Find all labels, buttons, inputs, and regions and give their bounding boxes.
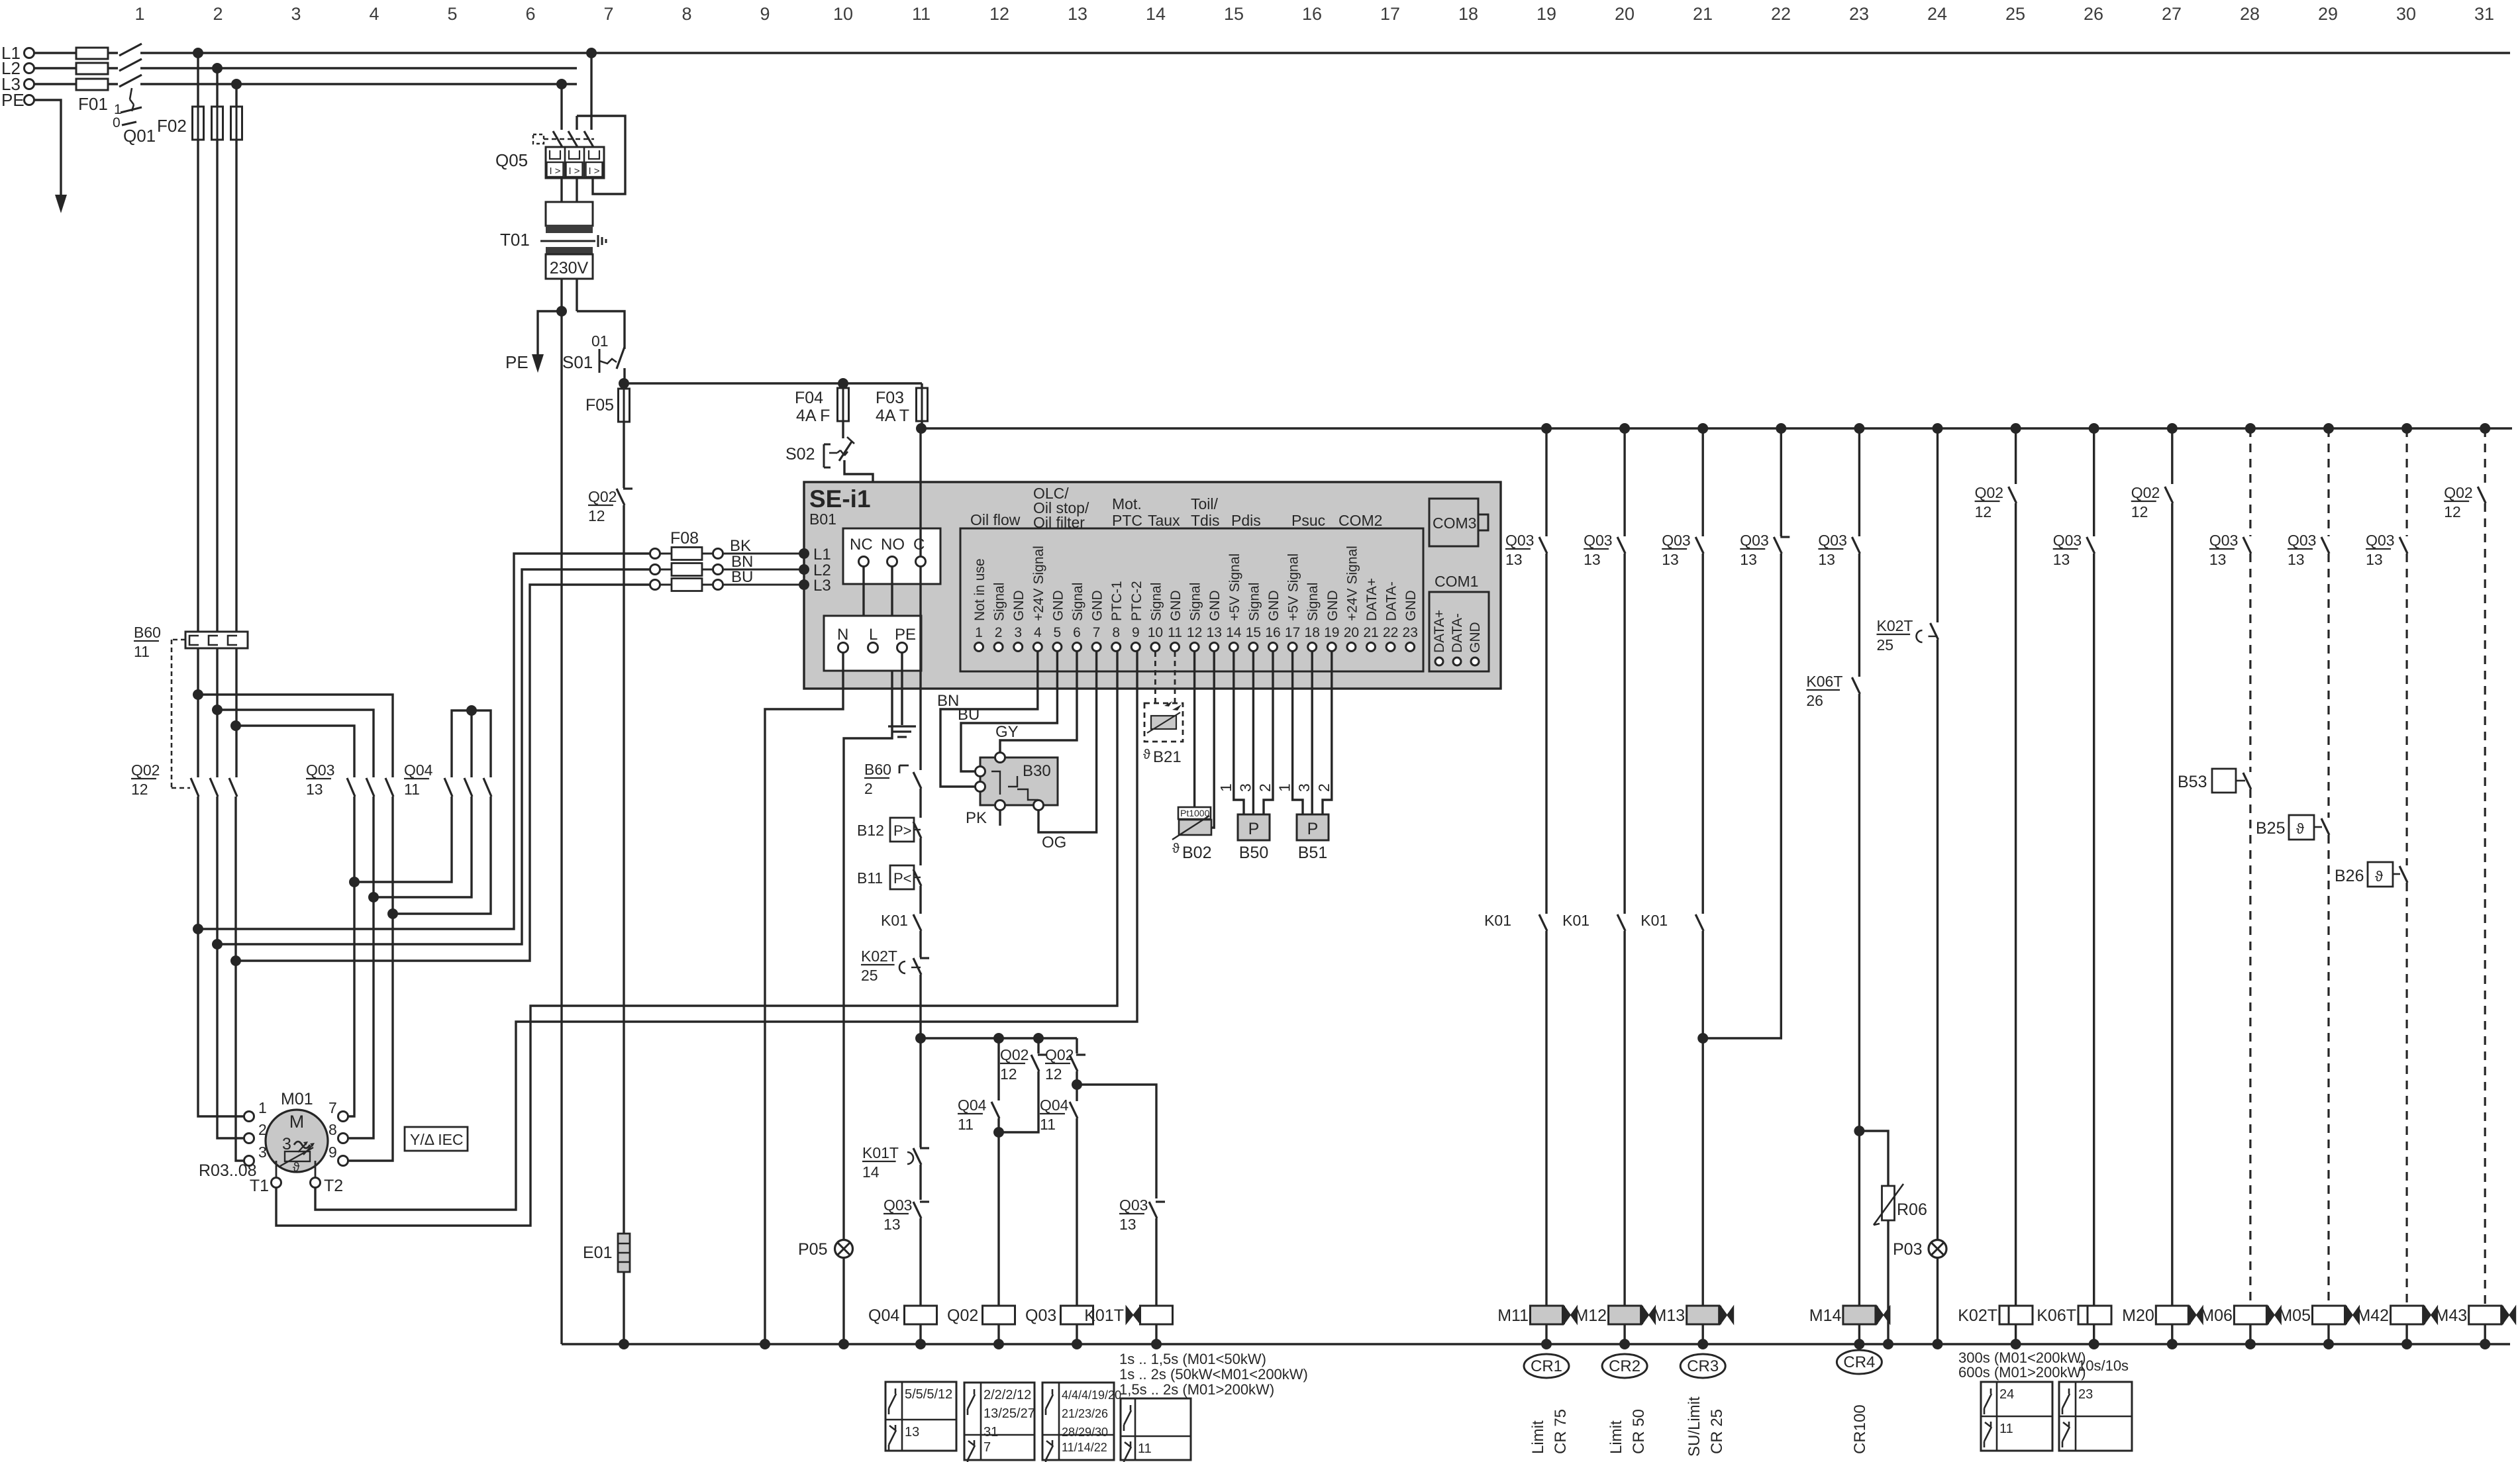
thermostat B25 bbox=[2256, 815, 2329, 1306]
svg-text:M11: M11 bbox=[1497, 1306, 1529, 1325]
bottom supply rail bbox=[562, 1339, 2510, 1349]
svg-text:23: 23 bbox=[1403, 625, 1418, 640]
svg-text:P: P bbox=[1248, 820, 1260, 838]
solenoid coil M20 bbox=[2122, 1306, 2203, 1349]
svg-text:Q01: Q01 bbox=[123, 126, 156, 146]
branch rail H1 bbox=[921, 1033, 1077, 1044]
SE-i1 terminal L3 bbox=[799, 577, 831, 595]
svg-text:S01: S01 bbox=[562, 352, 593, 372]
svg-text:230V: 230V bbox=[550, 259, 589, 277]
motor M01 bbox=[244, 1090, 348, 1172]
svg-text:13: 13 bbox=[2209, 551, 2227, 568]
solenoid coil M12 bbox=[1574, 1306, 1655, 1349]
svg-text:24: 24 bbox=[1927, 4, 1947, 24]
svg-text:PE: PE bbox=[1, 90, 25, 110]
fuse F03 4A T bbox=[876, 383, 928, 428]
svg-text:BU: BU bbox=[958, 706, 980, 724]
current transformer B60 bbox=[134, 624, 248, 788]
wire column 26 bbox=[2093, 428, 2095, 536]
svg-text:COM1: COM1 bbox=[1435, 573, 1478, 590]
svg-text:24: 24 bbox=[1999, 1387, 2014, 1402]
contact Q03/13 above K01T coil bbox=[1119, 1196, 1165, 1306]
svg-text:Q04: Q04 bbox=[1040, 1096, 1069, 1114]
svg-text:7: 7 bbox=[603, 4, 613, 24]
wire control feed to F04 F03 bbox=[624, 382, 922, 384]
svg-text:2: 2 bbox=[864, 780, 873, 797]
svg-text:15: 15 bbox=[1224, 4, 1244, 24]
svg-text:F03: F03 bbox=[876, 389, 904, 407]
svg-text:13: 13 bbox=[1818, 551, 1835, 568]
wire column 19 bbox=[1545, 428, 1547, 536]
svg-text:11: 11 bbox=[1138, 1441, 1152, 1456]
svg-text:C: C bbox=[913, 536, 925, 554]
motor protection switch Q05 bbox=[495, 53, 625, 194]
svg-text:Q04: Q04 bbox=[958, 1096, 987, 1114]
svg-text:13/25/27: 13/25/27 bbox=[983, 1406, 1035, 1421]
svg-text:BN: BN bbox=[937, 692, 959, 710]
oil temperature sensor B02 Pt1000 bbox=[1172, 652, 1214, 862]
pressure transmitter B50 bbox=[1217, 652, 1274, 862]
svg-text:Signal: Signal bbox=[992, 583, 1007, 621]
svg-text:1: 1 bbox=[134, 4, 144, 24]
wire BN from pin 4 bbox=[937, 652, 1038, 787]
switch S02 bbox=[785, 437, 873, 530]
wire L3 bbox=[34, 83, 577, 85]
svg-text:13: 13 bbox=[1584, 551, 1601, 568]
pressure switch B12 P> bbox=[857, 818, 921, 865]
svg-text:B02: B02 bbox=[1182, 844, 1211, 862]
svg-text:M42: M42 bbox=[2356, 1306, 2389, 1325]
svg-text:2/2/2/12: 2/2/2/12 bbox=[983, 1388, 1031, 1402]
svg-text:Q03: Q03 bbox=[1818, 532, 1846, 549]
wire phase 3 down to Q02 bbox=[235, 140, 237, 777]
neutral wire from T01 down to bottom rail bbox=[560, 311, 562, 1344]
solenoid coil M06 bbox=[2200, 1306, 2281, 1349]
svg-text:L: L bbox=[869, 626, 878, 644]
svg-text:B51: B51 bbox=[1298, 844, 1327, 862]
svg-text:M06: M06 bbox=[2200, 1306, 2233, 1325]
svg-text:T01: T01 bbox=[500, 230, 530, 250]
contact K01 column 19 bbox=[1484, 912, 1547, 1306]
solenoid coil M05 bbox=[2278, 1306, 2359, 1349]
svg-text:Q03: Q03 bbox=[1584, 532, 1612, 549]
svg-text:11: 11 bbox=[1168, 625, 1182, 640]
svg-text:Pt1000: Pt1000 bbox=[1180, 808, 1210, 818]
svg-text:Signal: Signal bbox=[1188, 583, 1203, 621]
svg-text:Q03: Q03 bbox=[2288, 532, 2316, 549]
contact cross reference K06T bbox=[2059, 1382, 2132, 1451]
svg-text:T2: T2 bbox=[324, 1177, 343, 1195]
svg-text:GND: GND bbox=[1168, 590, 1184, 621]
svg-text:Oil flow: Oil flow bbox=[970, 511, 1021, 528]
svg-text:18: 18 bbox=[1458, 4, 1478, 24]
svg-text:12: 12 bbox=[2444, 503, 2461, 520]
svg-text:Toil/: Toil/ bbox=[1191, 495, 1219, 512]
svg-text:5: 5 bbox=[1054, 625, 1062, 640]
wire N terminal to bottom rail bbox=[765, 653, 843, 1344]
svg-text:13: 13 bbox=[306, 781, 323, 798]
svg-text:22: 22 bbox=[1383, 625, 1398, 640]
svg-text:4: 4 bbox=[1034, 625, 1042, 640]
svg-text:6: 6 bbox=[525, 4, 535, 24]
disconnect switch Q01 bbox=[113, 44, 156, 146]
oil sensor B30 bbox=[976, 753, 1058, 810]
oil heater E01 bbox=[583, 1234, 630, 1344]
capacity step CR2 bbox=[1602, 1354, 1648, 1454]
wire to Q04 coil with contacts bbox=[919, 1038, 921, 1120]
svg-text:Q05: Q05 bbox=[495, 150, 528, 170]
svg-text:R06: R06 bbox=[1897, 1200, 1927, 1219]
svg-text:Q02: Q02 bbox=[1045, 1046, 1074, 1063]
solenoid coil M43 bbox=[2435, 1306, 2516, 1349]
svg-text:+24V Signal: +24V Signal bbox=[1031, 546, 1046, 621]
timing note K02T bbox=[1958, 1349, 2129, 1381]
svg-text:CR2: CR2 bbox=[1609, 1357, 1640, 1375]
wire OG from B30 to pin 7 bbox=[1038, 652, 1097, 852]
wire column 23 bbox=[1858, 428, 1860, 536]
svg-text:13: 13 bbox=[2366, 551, 2383, 568]
svg-text:Signal: Signal bbox=[1148, 583, 1164, 621]
svg-text:B12: B12 bbox=[857, 822, 884, 839]
svg-text:I >: I > bbox=[568, 166, 580, 177]
contactor coil Q02 bbox=[947, 1306, 1015, 1344]
svg-text:Q03: Q03 bbox=[306, 761, 334, 779]
wire BU from pin 5 bbox=[958, 652, 1057, 771]
solenoid coil M42 bbox=[2356, 1306, 2437, 1349]
pressure transmitter B51 bbox=[1276, 652, 1333, 862]
svg-text:20: 20 bbox=[1344, 625, 1359, 640]
svg-text:K06T: K06T bbox=[1806, 673, 1842, 690]
wire GY from pin 6 bbox=[995, 652, 1077, 753]
svg-text:14: 14 bbox=[1146, 4, 1166, 24]
svg-text:11: 11 bbox=[1999, 1422, 2013, 1436]
resistor R06 bbox=[1859, 1131, 1927, 1349]
fuse F05 bbox=[585, 389, 630, 488]
terminal L3 bbox=[1, 74, 34, 94]
svg-text:F08: F08 bbox=[670, 529, 699, 548]
svg-text:Pdis: Pdis bbox=[1231, 512, 1261, 529]
wire L1 rail bbox=[34, 52, 2510, 54]
svg-text:3: 3 bbox=[258, 1144, 267, 1161]
svg-text:DATA-: DATA- bbox=[1450, 613, 1465, 653]
contact Q03/13 column 28 bbox=[2209, 532, 2251, 772]
svg-text:12: 12 bbox=[1000, 1065, 1017, 1083]
svg-text:13: 13 bbox=[905, 1425, 919, 1439]
wire PK from B30 bbox=[966, 809, 1000, 827]
wires Q04 poles to winding ends bbox=[349, 797, 491, 919]
svg-text:19: 19 bbox=[1537, 4, 1556, 24]
svg-text:Limit: Limit bbox=[1607, 1420, 1625, 1454]
transformer T01 bbox=[500, 178, 606, 311]
svg-text:R03..08: R03..08 bbox=[199, 1161, 257, 1180]
svg-text:K01T: K01T bbox=[1084, 1306, 1124, 1325]
SE-i1 terminal L2 bbox=[799, 561, 831, 579]
wires motor phases down bbox=[198, 797, 244, 1161]
wire safety chain from C bbox=[919, 567, 921, 770]
svg-text:2: 2 bbox=[258, 1121, 267, 1138]
svg-text:Q03: Q03 bbox=[2209, 532, 2238, 549]
svg-text:Q03: Q03 bbox=[1740, 532, 1768, 549]
SE-i1 group labels bbox=[970, 485, 1382, 531]
svg-text:8: 8 bbox=[1112, 625, 1120, 640]
svg-text:K01: K01 bbox=[881, 912, 908, 929]
wire column 31 dashed bbox=[2484, 428, 2486, 484]
fuse block F01 bbox=[76, 48, 108, 114]
contactor contacts Q03 main poles bbox=[306, 761, 393, 798]
svg-text:26: 26 bbox=[2084, 4, 2103, 24]
svg-text:Q03: Q03 bbox=[1119, 1196, 1148, 1214]
contact cross reference K01T bbox=[1121, 1398, 1191, 1462]
fuse block F02 bbox=[157, 53, 242, 140]
svg-text:Tdis: Tdis bbox=[1191, 512, 1219, 529]
svg-text:13: 13 bbox=[1505, 551, 1523, 568]
motor thermistor R03..08 bbox=[199, 1142, 343, 1195]
svg-text:12: 12 bbox=[989, 4, 1009, 24]
svg-text:Signal: Signal bbox=[1070, 583, 1085, 621]
svg-text:Q02: Q02 bbox=[2444, 484, 2472, 501]
svg-text:Psuc: Psuc bbox=[1291, 512, 1325, 529]
svg-text:10: 10 bbox=[833, 4, 853, 24]
wire T1 to PTC-1 bbox=[276, 652, 1117, 1226]
label Y-Delta IEC bbox=[405, 1127, 468, 1151]
svg-text:Oil filter: Oil filter bbox=[1033, 514, 1085, 531]
contact cross reference Q04 bbox=[885, 1382, 956, 1451]
wire column 22 to column 21 bbox=[1780, 428, 1782, 536]
contact Q03/13 above Q04 coil bbox=[883, 1196, 929, 1306]
svg-text:Q03: Q03 bbox=[1505, 532, 1534, 549]
svg-text:PK: PK bbox=[966, 809, 987, 827]
svg-text:2: 2 bbox=[995, 625, 1003, 640]
svg-text:11: 11 bbox=[134, 643, 150, 660]
svg-text:2: 2 bbox=[1315, 783, 1333, 792]
earth symbol bbox=[888, 726, 916, 737]
svg-text:13: 13 bbox=[1740, 551, 1757, 568]
svg-text:I >: I > bbox=[588, 166, 599, 177]
svg-text:9: 9 bbox=[1132, 625, 1140, 640]
junction R06 branch bbox=[1854, 1126, 1864, 1136]
svg-text:Mot.: Mot. bbox=[1112, 495, 1142, 512]
svg-text:5/5/5/12: 5/5/5/12 bbox=[905, 1387, 952, 1402]
svg-text:23: 23 bbox=[1849, 4, 1869, 24]
svg-text:M13: M13 bbox=[1653, 1306, 1686, 1325]
svg-text:CR1: CR1 bbox=[1531, 1357, 1562, 1375]
timer contact K01T/14 bbox=[862, 1120, 929, 1200]
svg-text:Taux: Taux bbox=[1148, 512, 1180, 529]
svg-text:Q02: Q02 bbox=[588, 488, 617, 505]
wire column 21 bbox=[1701, 428, 1703, 536]
svg-text:NC: NC bbox=[850, 536, 873, 554]
svg-text:F02: F02 bbox=[157, 116, 187, 136]
contact Q03/13 column 26 bbox=[2053, 532, 2095, 1306]
contact Q03/13 column 20 bbox=[1584, 532, 1625, 914]
svg-text:7: 7 bbox=[1093, 625, 1101, 640]
svg-text:13: 13 bbox=[2053, 551, 2070, 568]
contact K01 column 20 bbox=[1562, 912, 1625, 1306]
svg-text:CR100: CR100 bbox=[1851, 1404, 1869, 1454]
svg-text:7: 7 bbox=[328, 1099, 337, 1116]
svg-text:31: 31 bbox=[983, 1425, 998, 1439]
svg-text:Limit: Limit bbox=[1529, 1420, 1547, 1454]
svg-text:ϑ: ϑ bbox=[1172, 842, 1180, 856]
wires winding ends down bbox=[348, 797, 393, 1161]
svg-text:PTC: PTC bbox=[1112, 512, 1142, 529]
wire C terminal from F03 bbox=[919, 428, 921, 556]
switch S01 bbox=[562, 311, 625, 383]
svg-text:L3: L3 bbox=[813, 577, 831, 595]
svg-text:13: 13 bbox=[1068, 4, 1087, 24]
wire phase 1 down to Q02 bbox=[197, 140, 199, 777]
svg-text:25: 25 bbox=[861, 967, 878, 984]
wire BU sense to motor phase 3 bbox=[230, 585, 650, 966]
svg-text:DATA+: DATA+ bbox=[1432, 610, 1447, 653]
contact Q02/12 column 25 bbox=[1975, 484, 2017, 1306]
svg-text:11: 11 bbox=[912, 4, 931, 24]
contactor coil Q03 bbox=[1025, 1306, 1093, 1344]
oil level switch contact B60/2 bbox=[864, 761, 921, 818]
svg-text:F01: F01 bbox=[78, 94, 108, 114]
svg-text:B50: B50 bbox=[1239, 844, 1268, 862]
svg-text:SU/Limit: SU/Limit bbox=[1686, 1396, 1703, 1457]
svg-text:Q03: Q03 bbox=[883, 1196, 912, 1214]
svg-text:6: 6 bbox=[1073, 625, 1081, 640]
svg-text:1: 1 bbox=[1217, 783, 1235, 792]
svg-text:M20: M20 bbox=[2122, 1306, 2154, 1325]
oil level switch B53 bbox=[2178, 769, 2251, 1306]
svg-text:GND: GND bbox=[1050, 590, 1066, 621]
svg-text:+24V Signal: +24V Signal bbox=[1344, 546, 1360, 621]
control rail junctions for columns 19-31 bbox=[1541, 423, 2490, 434]
svg-text:Q02: Q02 bbox=[1975, 484, 2003, 501]
svg-text:Signal: Signal bbox=[1246, 583, 1262, 621]
signal lamp P05 bbox=[798, 1240, 853, 1345]
svg-text:Y/Δ IEC: Y/Δ IEC bbox=[410, 1131, 464, 1148]
solenoid coil M13 bbox=[1653, 1306, 1734, 1349]
svg-text:F05: F05 bbox=[585, 396, 614, 414]
svg-text:K06T: K06T bbox=[2037, 1306, 2076, 1325]
contact cross reference K02T bbox=[1981, 1382, 2052, 1451]
svg-text:B25: B25 bbox=[2256, 819, 2285, 838]
svg-text:B60: B60 bbox=[864, 761, 891, 778]
terminal L2 bbox=[1, 58, 34, 78]
junction L1 to Q05 bbox=[586, 48, 597, 58]
svg-text:7: 7 bbox=[983, 1440, 991, 1455]
wire column 24 bbox=[1937, 428, 1939, 622]
junction L2 tap bbox=[212, 63, 223, 73]
svg-text:1: 1 bbox=[975, 625, 983, 640]
thermostat B26 bbox=[2335, 862, 2407, 1306]
svg-text:M01: M01 bbox=[281, 1090, 313, 1108]
contact Q03/13 column 30 bbox=[2366, 532, 2407, 865]
svg-text:OG: OG bbox=[1042, 834, 1066, 852]
svg-text:01: 01 bbox=[591, 332, 609, 350]
svg-text:29: 29 bbox=[2318, 4, 2338, 24]
svg-text:14: 14 bbox=[862, 1163, 880, 1181]
svg-text:Q04: Q04 bbox=[404, 761, 433, 779]
svg-text:12: 12 bbox=[1045, 1065, 1062, 1083]
wire NO down to lamp P05 bbox=[844, 567, 892, 1240]
svg-text:30: 30 bbox=[2396, 4, 2416, 24]
capacity step CR4 bbox=[1837, 1350, 1882, 1454]
fuse F04 4A F bbox=[795, 378, 849, 438]
svg-text:13: 13 bbox=[2288, 551, 2305, 568]
svg-text:PE: PE bbox=[505, 352, 529, 372]
main control rail bbox=[921, 427, 2512, 429]
svg-text:PE: PE bbox=[895, 626, 916, 644]
svg-text:25: 25 bbox=[2005, 4, 2025, 24]
timer coil K02T bbox=[1958, 1306, 2033, 1349]
SE-i1 supply terminals N L PE bbox=[824, 616, 921, 671]
svg-text:21: 21 bbox=[1693, 4, 1713, 24]
contact Q02/12 column 31 bbox=[2444, 484, 2486, 1306]
junction L3 to Q05 bbox=[556, 79, 567, 89]
svg-text:Q02: Q02 bbox=[131, 761, 160, 779]
svg-text:K01: K01 bbox=[1562, 912, 1589, 929]
svg-text:17: 17 bbox=[1285, 625, 1300, 640]
timer coil K01T bbox=[1084, 1306, 1172, 1344]
column ruler numbers 1-31 bbox=[134, 4, 2494, 24]
svg-text:E01: E01 bbox=[583, 1243, 612, 1262]
svg-text:Q03: Q03 bbox=[1025, 1306, 1056, 1325]
svg-text:K01: K01 bbox=[1640, 912, 1668, 929]
svg-text:Q03: Q03 bbox=[2366, 532, 2394, 549]
wire column 25 bbox=[2015, 428, 2017, 484]
svg-text:0: 0 bbox=[113, 115, 121, 130]
solenoid coil M14 bbox=[1809, 1306, 1890, 1349]
svg-text:8: 8 bbox=[681, 4, 691, 24]
svg-text:4/4/4/19/20: 4/4/4/19/20 bbox=[1062, 1389, 1121, 1402]
svg-text:DATA+: DATA+ bbox=[1364, 578, 1380, 621]
contactor contacts Q04 main poles bbox=[404, 761, 491, 798]
svg-text:NO: NO bbox=[881, 536, 905, 554]
svg-text:K02T: K02T bbox=[1877, 617, 1913, 634]
terminal PE bbox=[1, 90, 34, 110]
svg-text:B21: B21 bbox=[1153, 748, 1182, 766]
wire column 29 dashed bbox=[2327, 428, 2329, 536]
svg-text:GY: GY bbox=[995, 723, 1019, 741]
svg-text:M43: M43 bbox=[2435, 1306, 2468, 1325]
solenoid coil M11 bbox=[1497, 1306, 1577, 1349]
svg-text:M12: M12 bbox=[1574, 1306, 1607, 1325]
svg-text:13: 13 bbox=[1119, 1216, 1136, 1233]
contact Q02/12 column 27 bbox=[2131, 484, 2173, 1306]
contact Q03/13 column 23 bbox=[1818, 532, 1860, 677]
terminal L1 bbox=[1, 43, 34, 63]
SE-i1 terminal strip pins 1-23 bbox=[960, 528, 1423, 671]
contact Q03/13 column 19 bbox=[1505, 532, 1547, 914]
svg-text:B30: B30 bbox=[1023, 762, 1051, 780]
contact Q03/13 column 29 bbox=[2288, 532, 2329, 818]
pressure switch B11 P< bbox=[857, 865, 921, 914]
svg-text:21/23/26: 21/23/26 bbox=[1062, 1407, 1108, 1420]
svg-text:P>: P> bbox=[893, 822, 912, 839]
star tap wires to Q03 poles bbox=[193, 689, 393, 777]
contact Q02/12 on heater line bbox=[588, 488, 632, 1234]
timer contact K02T/25 in chain bbox=[861, 948, 929, 1038]
svg-text:14: 14 bbox=[1226, 625, 1242, 640]
wire PE terminal to earth bbox=[901, 653, 903, 725]
svg-text:PTC-1: PTC-1 bbox=[1109, 581, 1125, 621]
svg-text:28: 28 bbox=[2240, 4, 2260, 24]
svg-text:11: 11 bbox=[958, 1116, 974, 1133]
svg-text:Q04: Q04 bbox=[868, 1306, 899, 1325]
svg-text:+5V Signal: +5V Signal bbox=[1227, 554, 1242, 621]
svg-text:Q02: Q02 bbox=[2131, 484, 2160, 501]
svg-text:20: 20 bbox=[1615, 4, 1635, 24]
svg-text:18: 18 bbox=[1305, 625, 1320, 640]
svg-text:ϑ: ϑ bbox=[1143, 748, 1150, 762]
svg-text:Q02: Q02 bbox=[1000, 1046, 1029, 1063]
svg-text:K01T: K01T bbox=[862, 1144, 899, 1161]
